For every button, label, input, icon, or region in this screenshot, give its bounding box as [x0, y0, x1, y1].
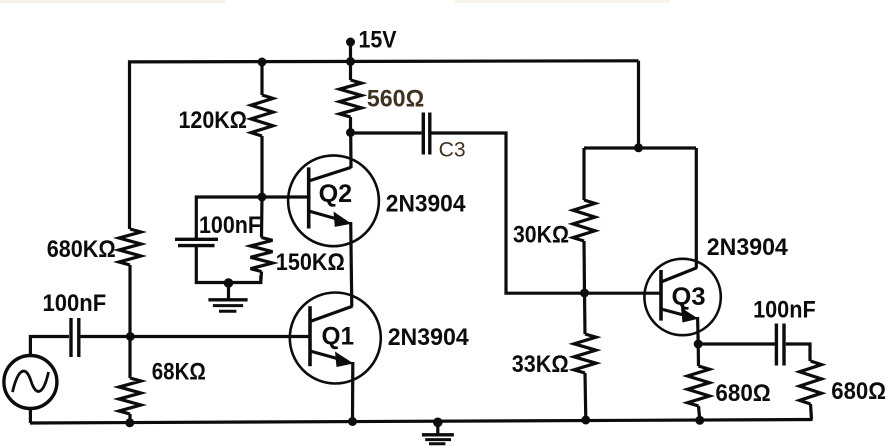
- node top-rail/120K junction: [258, 58, 267, 67]
- capacitor C3 plates: [423, 113, 430, 155]
- node 30K/33K junction: [580, 289, 589, 298]
- resistor 680Ω left: [688, 344, 710, 420]
- capacitor 100nF (Q2) plates: [175, 239, 218, 245]
- node 680 left bottom rail: [695, 416, 704, 425]
- wire right T horizontal: [584, 146, 696, 149]
- resistor 30KΩ: [573, 148, 595, 293]
- svg-text:2N3904: 2N3904: [386, 191, 466, 218]
- resistor 680KΩ: [119, 229, 141, 265]
- resistor 33KΩ: [574, 293, 596, 420]
- svg-text:33KΩ: 33KΩ: [512, 351, 569, 378]
- capacitor 100nF output plates: [776, 324, 784, 366]
- svg-text:C3: C3: [439, 138, 466, 162]
- node 15V terminal dot: [346, 38, 355, 47]
- wire node to cap top: [196, 197, 262, 238]
- wire bottom rail: [30, 420, 813, 424]
- transistor Q1: [290, 293, 381, 422]
- wire input node to Q1 base: [80, 335, 309, 338]
- node T junction dot: [634, 143, 643, 152]
- capacitor 100nF input plates: [71, 318, 79, 357]
- resistor 560Ω: [340, 80, 362, 117]
- node 68K/bottom-rail junction: [125, 418, 134, 427]
- svg-text:150KΩ: 150KΩ: [276, 249, 345, 276]
- wire Q2 base: [262, 195, 309, 198]
- wire right drop to T-node: [637, 61, 640, 148]
- node Q3 emitter junction: [694, 340, 703, 349]
- node top-rail/560 junction: [346, 57, 355, 66]
- scan smudge top-left: [0, 0, 225, 3]
- svg-text:100nF: 100nF: [199, 212, 261, 239]
- svg-text:15V: 15V: [359, 27, 397, 54]
- wire 560 bottom to C3 node: [349, 117, 352, 133]
- svg-text:Q1: Q1: [322, 323, 355, 351]
- svg-text:30KΩ: 30KΩ: [513, 222, 569, 249]
- wire output node to cap: [698, 342, 775, 345]
- node 560/C3/Q2-collector junction: [346, 128, 355, 137]
- wire source top stub: [30, 337, 69, 356]
- svg-text:680KΩ: 680KΩ: [47, 236, 116, 263]
- resistor 150KΩ: [251, 238, 273, 272]
- sine wave glyph: [13, 371, 49, 392]
- svg-text:68KΩ: 68KΩ: [152, 359, 206, 386]
- svg-text:Q3: Q3: [672, 283, 706, 311]
- ground G2 (bottom center): [422, 418, 454, 444]
- svg-text:2N3904: 2N3904: [388, 324, 470, 351]
- resistor 680Ω right: [800, 361, 822, 420]
- wire 680K bottom to input node: [128, 265, 131, 337]
- wire cap to right resistor: [786, 344, 810, 361]
- wire Q3 collector riser: [695, 148, 698, 268]
- scan smudge top-middle: [455, 0, 670, 3]
- svg-text:680Ω: 680Ω: [831, 378, 886, 405]
- svg-text:680Ω: 680Ω: [715, 380, 770, 407]
- svg-text:120KΩ: 120KΩ: [179, 107, 248, 134]
- svg-text:2N3904: 2N3904: [707, 234, 789, 261]
- wire source bottom stub: [29, 409, 32, 424]
- node 33K bottom rail: [581, 416, 590, 425]
- wire C3 branch left: [351, 131, 422, 134]
- svg-text:Q2: Q2: [319, 180, 353, 208]
- source V1 sine circle: [4, 356, 57, 409]
- ground G1 (under 150K node): [208, 278, 247, 311]
- wire top rail: [130, 61, 639, 229]
- transistor Q3: [644, 259, 720, 344]
- node 120K/150K/Q2-base junction: [258, 193, 267, 202]
- svg-text:560Ω: 560Ω: [367, 85, 424, 112]
- resistor 68KΩ: [119, 337, 141, 424]
- node input junction: [126, 332, 135, 341]
- node Q1 emitter / bottom rail: [348, 417, 357, 426]
- wire 100nF/150K bottom loop: [196, 246, 260, 283]
- svg-text:100nF: 100nF: [43, 290, 107, 317]
- svg-text:100nF: 100nF: [753, 297, 816, 324]
- wire 15V stub: [349, 42, 352, 80]
- wire C3 branch right, drop, to Q3 base: [432, 133, 661, 293]
- transistor Q2: [288, 133, 379, 307]
- resistor 120KΩ: [251, 63, 273, 197]
